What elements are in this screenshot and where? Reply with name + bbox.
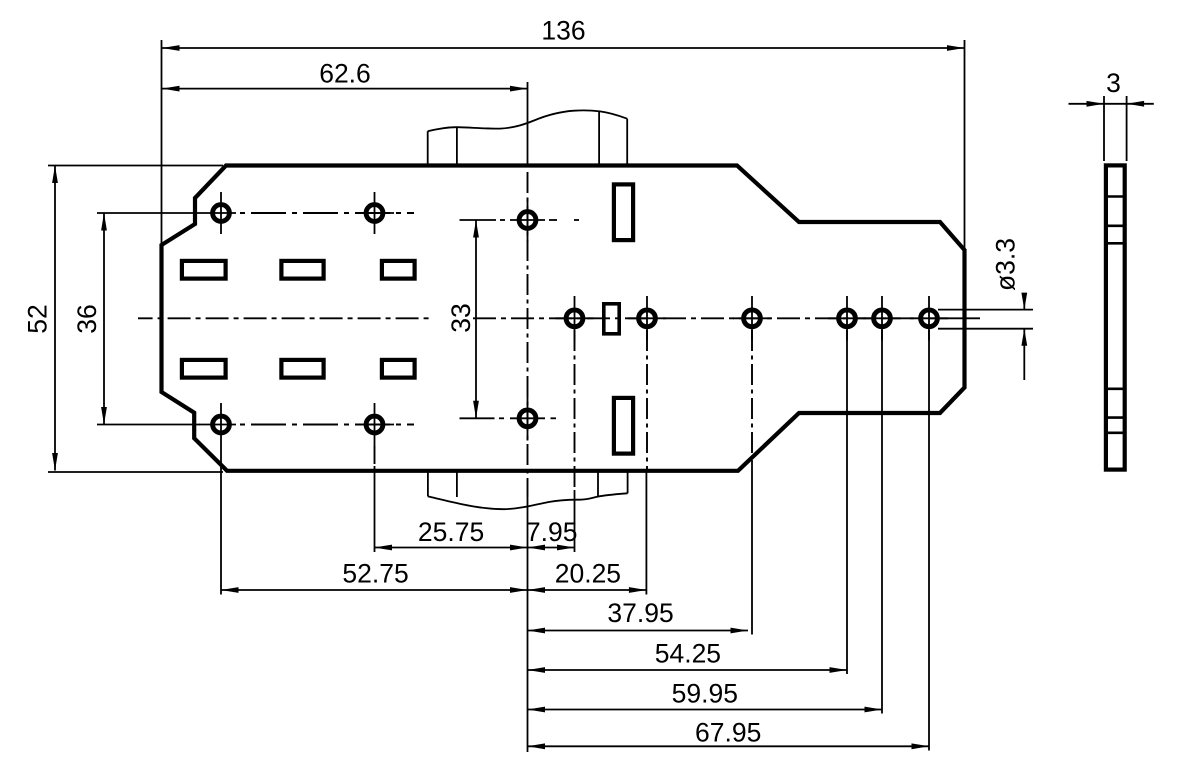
dimension 62.6 [162, 59, 528, 89]
hole C2 mid column lower [519, 410, 536, 427]
main horizontal center line [138, 317, 980, 319]
vertical slot bottom [614, 398, 633, 454]
dimension 136 [162, 16, 965, 49]
hole C1 mid column upper [519, 212, 536, 229]
extension line y=424.5 [97, 424, 200, 426]
dimension 33 [446, 220, 476, 418]
extension line x=527.5 through tab [527, 82, 529, 165]
slot row 1 left [182, 261, 226, 279]
crosshair hole B2 [358, 403, 394, 447]
extension line x=221 below [220, 447, 222, 595]
dimension 54.25 [528, 639, 848, 671]
vertical center line x=527.5 [527, 172, 529, 497]
side view lamination line 6 [1106, 431, 1125, 434]
extension line left x=161.5 [161, 40, 163, 244]
dimension 37.95 [528, 598, 749, 631]
svg-text:62.6: 62.6 [319, 59, 371, 89]
extension line y=219.5 for 33 [460, 219, 497, 221]
side view lamination line 5 [1106, 416, 1125, 419]
slot row 1 middle [281, 261, 323, 279]
hole D6 center row [921, 310, 938, 327]
hole B2 bottom [366, 416, 383, 433]
short center line below hole B2 [374, 446, 376, 464]
side view lamination line 1 [1106, 195, 1125, 198]
crosshair hole D2 [628, 296, 666, 341]
svg-text:33: 33 [446, 303, 476, 332]
hole D1 center row [566, 310, 583, 327]
svg-text:59.95: 59.95 [672, 679, 738, 709]
crosshair hole D3 [733, 296, 771, 341]
bottom mounting tab (wavy break line) [428, 471, 628, 509]
extension line y=418.5 for 33 [460, 417, 495, 419]
hole B1 bottom-left [213, 416, 230, 433]
crosshair hole D4 [828, 296, 866, 341]
dimension 52.75 [221, 559, 528, 591]
hole D2 center row [639, 310, 656, 327]
center line row y=213 [240, 212, 414, 214]
dimension diameter 3.3 [991, 238, 1028, 380]
center line row y=424.5 [240, 424, 414, 426]
hole A1 top-left [213, 205, 230, 222]
small center rectangle [604, 304, 619, 334]
dimension 7.95 [526, 517, 578, 548]
extension lines for 3 [1103, 96, 1105, 161]
crosshair hole D6 [910, 296, 948, 341]
side view plate body [1106, 165, 1125, 469]
extension line y=213 [97, 212, 202, 214]
extension line x=882 below [881, 330, 883, 714]
crosshair hole C1 [510, 198, 545, 242]
slot row 2 middle [281, 360, 323, 378]
extension line x=752 below [751, 460, 753, 635]
svg-text:136: 136 [541, 16, 585, 46]
crosshair hole A2 [358, 192, 394, 234]
svg-text:7.95: 7.95 [526, 517, 578, 547]
vertical center line hole D2 [646, 330, 648, 470]
extension line right x=964.5 [964, 40, 966, 249]
crosshair hole D1 [556, 296, 594, 341]
svg-text:37.95: 37.95 [607, 598, 673, 628]
crosshair hole A1 [202, 192, 236, 234]
extension line x=646.4 below [645, 470, 647, 595]
crosshair hole B1 [199, 403, 236, 447]
dimension 59.95 [528, 679, 883, 710]
plate outline (top view) [162, 166, 965, 471]
crosshair hole C2 [510, 397, 545, 441]
svg-text:52.75: 52.75 [342, 559, 408, 589]
dimension 36 [72, 213, 104, 425]
side view lamination line 3 [1106, 242, 1125, 245]
dimension 67.95 [528, 718, 930, 748]
extension line y=165.5 [48, 165, 223, 167]
slot row 2 right [382, 360, 415, 378]
vertical center line hole D1 [574, 330, 576, 490]
dimension 25.75 [375, 517, 528, 548]
short dash right of hole C2 [499, 417, 556, 419]
dimension 52 [23, 166, 55, 471]
crosshair hole D5 [863, 296, 901, 341]
extension line x=527.5 below [527, 497, 529, 752]
svg-text:36: 36 [72, 304, 102, 333]
dimension 20.25 [528, 559, 647, 591]
svg-text:54.25: 54.25 [655, 639, 721, 669]
hole diameter leader lines [938, 309, 1033, 311]
hole D4 center row [839, 310, 856, 327]
side view lamination line 4 [1106, 387, 1125, 390]
svg-text:ø3.3: ø3.3 [991, 238, 1021, 291]
svg-text:3: 3 [1106, 68, 1121, 98]
top mounting tab (wavy break line) [428, 110, 628, 165]
hole D5 center row [874, 310, 891, 327]
slot row 2 left [182, 360, 226, 378]
svg-text:52: 52 [23, 304, 53, 333]
vertical slot top [614, 184, 633, 240]
extension line x=847 below [846, 330, 848, 674]
side view lamination line 2 [1106, 225, 1125, 228]
svg-text:25.75: 25.75 [418, 517, 484, 547]
svg-text:20.25: 20.25 [555, 559, 621, 589]
extension line y=472 [48, 471, 223, 473]
extension line x=374.5 below [374, 466, 376, 552]
svg-text:67.95: 67.95 [695, 718, 761, 748]
slot row 1 right [382, 261, 415, 279]
hole D3 center row [744, 310, 761, 327]
short dash right of hole C1 [500, 219, 579, 221]
hole A2 top [366, 205, 383, 222]
extension line x=929 below [928, 330, 930, 751]
dimension 3 (side view thickness) [1069, 68, 1154, 107]
vertical center line hole D3 [751, 330, 753, 457]
extension line x=574.5 below [574, 490, 576, 552]
